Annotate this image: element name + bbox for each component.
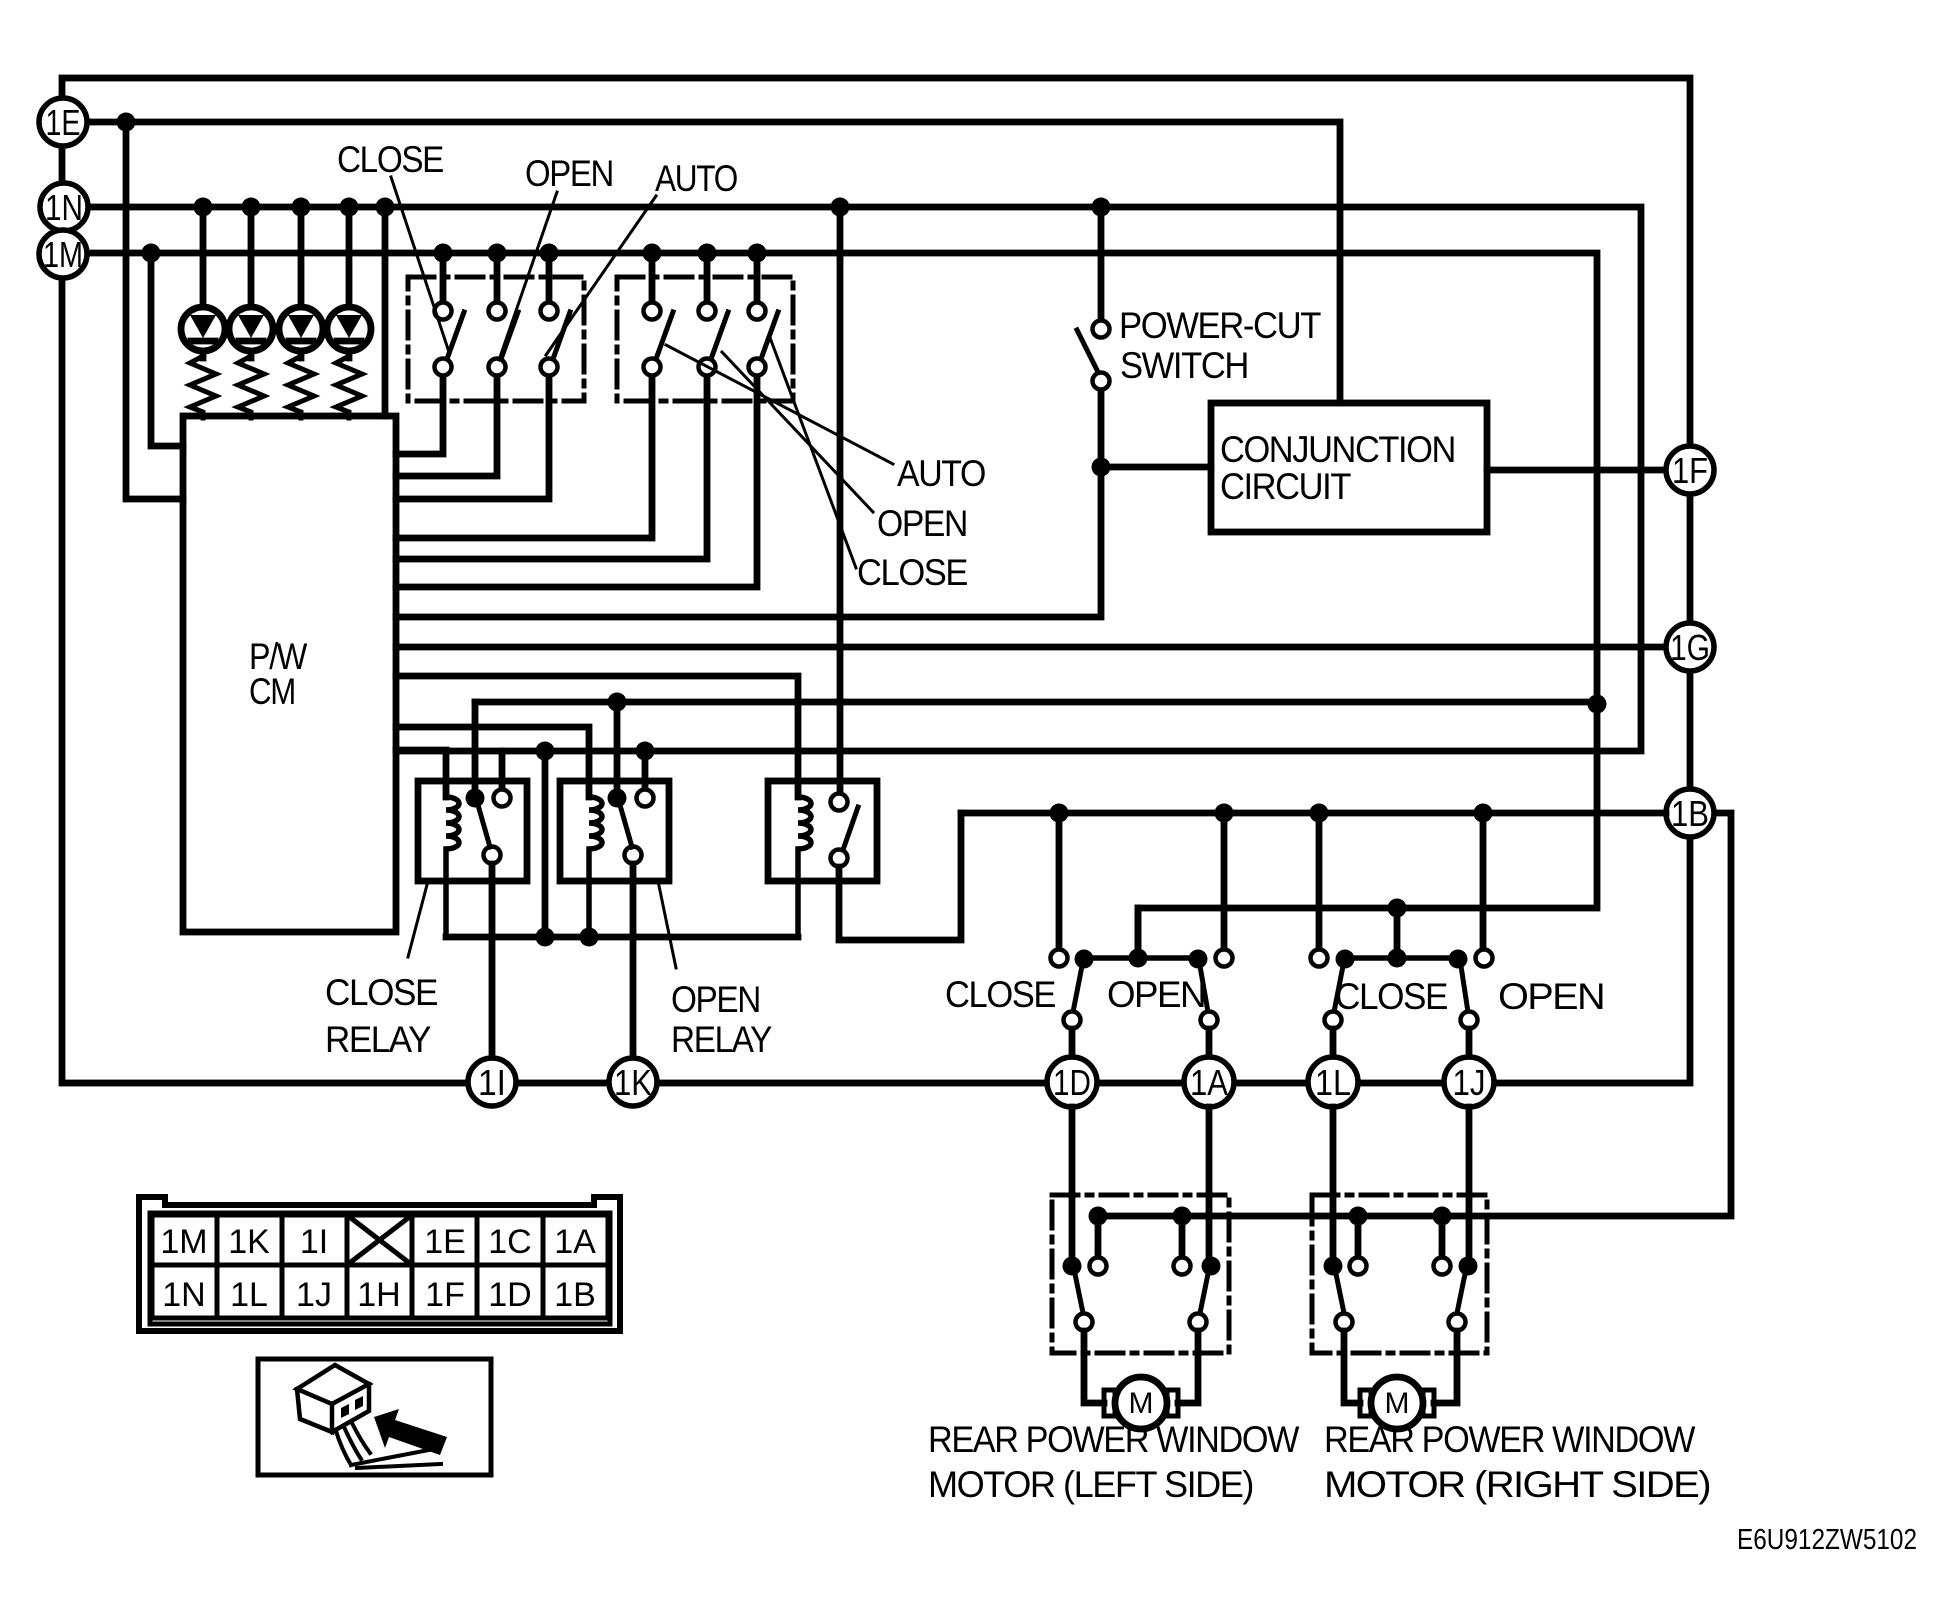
svg-text:1H: 1H: [357, 1276, 400, 1314]
svg-text:1M: 1M: [160, 1223, 207, 1261]
svg-text:CM: CM: [249, 671, 295, 712]
leader line OPEN RELAY label: [658, 881, 676, 968]
connector pin 1G: [1666, 623, 1714, 671]
svg-text:CIRCUIT: CIRCUIT: [1220, 466, 1351, 507]
connector pin 1K: [609, 1058, 657, 1106]
svg-text:1E: 1E: [46, 102, 81, 143]
svg-text:1A: 1A: [554, 1223, 596, 1261]
left rear power window motor M: [1104, 1377, 1178, 1429]
right rear power window motor M: [1360, 1377, 1434, 1429]
switch box 2 dashed enclosure: [617, 277, 793, 401]
svg-text:1I: 1I: [300, 1223, 328, 1261]
svg-text:1I: 1I: [478, 1062, 506, 1103]
power-cut switch: [1077, 207, 1110, 390]
wire 1M bus to rear switch close contacts: [87, 253, 1597, 957]
svg-text:MOTOR (RIGHT SIDE): MOTOR (RIGHT SIDE): [1324, 1464, 1710, 1505]
left motor switch dash-dot box: [1052, 1195, 1229, 1353]
wire relay2 output to 1K: [630, 864, 637, 1058]
svg-text:RELAY: RELAY: [671, 1019, 772, 1060]
node junction dot on 1E wire: [117, 113, 136, 132]
open relay K2 contacts: common dot, NO circle, output circle, blade: [608, 789, 654, 864]
left motor switch blades and lower contacts: [1075, 1274, 1208, 1331]
svg-text:M: M: [1385, 1387, 1410, 1420]
svg-text:POWER-CUT: POWER-CUT: [1119, 305, 1321, 346]
svg-text:1K: 1K: [228, 1223, 270, 1261]
conjunction circuit box: [1211, 403, 1487, 532]
wire stubs common bus to motor switch contacts: [1098, 1216, 1442, 1257]
wire stubs 1B bus to rear switch NO contacts: [1059, 813, 1483, 949]
resistor R4: [336, 356, 362, 418]
left motor switch contacts: [1063, 1257, 1221, 1276]
open relay K2 box: [560, 781, 669, 881]
LED D3: [279, 207, 323, 358]
close relay K1 coil: [446, 797, 459, 937]
wire CM pin joining relay 1 coil on 1N line: [396, 750, 446, 797]
node dot relay2 coil return: [580, 928, 599, 947]
wire link 1N line down to coil return bus: [542, 751, 549, 937]
svg-text:1J: 1J: [296, 1276, 332, 1314]
relay K3 contacts: input from 1N vertical, circles and blade: [831, 207, 859, 867]
connector pin 1B: [1666, 789, 1714, 837]
node dots on 1M bus: [142, 244, 767, 263]
svg-text:M: M: [1129, 1387, 1154, 1420]
wire 1E feed to conjunction circuit: [86, 122, 1340, 403]
wire CM pin to auto switch SW2c: [396, 376, 757, 587]
harness connector icon wires: [336, 1423, 441, 1468]
close relay K1 contacts: common dot, NO circle, output circle, blade: [466, 789, 511, 864]
connector table X cell: [347, 1215, 412, 1265]
svg-text:1A: 1A: [1190, 1062, 1228, 1103]
svg-text:MOTOR (LEFT SIDE): MOTOR (LEFT SIDE): [928, 1464, 1253, 1505]
svg-text:1B: 1B: [1671, 793, 1709, 834]
wire CM pin to close switch SW1a: [396, 376, 443, 454]
svg-text:SWITCH: SWITCH: [1120, 345, 1248, 386]
node dots on 1B bus: [1050, 804, 1493, 823]
relay coil return bus: [446, 934, 798, 941]
wire CM pin to relay 3 coil: [396, 676, 798, 797]
wire 1J to right motor switch: [1466, 1107, 1473, 1258]
svg-text:CLOSE: CLOSE: [945, 974, 1056, 1015]
resistor R1: [190, 356, 216, 418]
connector pinout table grid: [152, 1215, 608, 1318]
svg-text:OPEN: OPEN: [1498, 976, 1604, 1017]
connector pin 1E: [39, 98, 87, 146]
svg-text:CLOSE: CLOSE: [857, 552, 968, 593]
svg-text:OPEN: OPEN: [1107, 974, 1205, 1015]
wire 1L to right motor switch: [1330, 1107, 1337, 1258]
connector pin 1A: [1184, 1057, 1234, 1107]
svg-text:1L: 1L: [1315, 1062, 1351, 1103]
LED D2: [229, 207, 273, 358]
switch SW1c auto: [541, 262, 571, 376]
svg-text:1F: 1F: [425, 1276, 465, 1314]
svg-text:OPEN: OPEN: [525, 153, 613, 194]
wires right switch to motor: [1344, 1331, 1457, 1403]
LED D1 with wire and cathode bar: [181, 207, 225, 358]
leader line CLOSE label to SW1a: [391, 177, 449, 352]
svg-text:1N: 1N: [162, 1276, 205, 1314]
harness connector icon 3d body: [297, 1365, 369, 1432]
harness connector icon arrow: [374, 1409, 447, 1455]
close relay K1 box: [418, 781, 527, 881]
leader line AUTO label to SW1c: [546, 196, 656, 355]
wire CM pin to 1G: [396, 644, 1666, 651]
wire relay1 output to 1I: [489, 864, 496, 1058]
node dot on rear-switch close feed wire: [1388, 899, 1407, 918]
wire 1M drop to P/W CM: [151, 253, 183, 446]
wire 1B return bus to motor switch commons: [1098, 813, 1731, 1216]
wire outer loop: top border, right vertical through 1F 1G 1B, bottom bus through 1I 1K 1D 1A 1L 1J, left border: [62, 78, 1690, 1083]
node dots on motor common bus: [1089, 1207, 1452, 1226]
leader line CLOSE RELAY label: [408, 881, 428, 957]
leader line SW2c to right CLOSE label: [769, 335, 856, 568]
wires left switch to motor: [1084, 1331, 1198, 1403]
switch SW1b open: [489, 262, 519, 376]
wire relay2 common drop: [614, 702, 621, 790]
svg-text:1N: 1N: [45, 187, 83, 228]
node dot power-cut to conjunction tap: [1092, 458, 1111, 477]
wire 1A to left motor switch: [1206, 1107, 1213, 1258]
resistor R2: [238, 356, 264, 418]
svg-text:RELAY: RELAY: [325, 1019, 431, 1060]
node dot coil bus link: [536, 928, 555, 947]
svg-text:CLOSE: CLOSE: [1335, 976, 1448, 1017]
rear right switch contacts row: [1311, 949, 1493, 969]
svg-text:1M: 1M: [43, 234, 83, 275]
relay K3 coil: [798, 797, 811, 937]
right motor switch contacts: [1324, 1257, 1478, 1276]
right motor switch blades and lower contacts: [1336, 1274, 1466, 1331]
rear right switch blades and lower contacts: [1325, 966, 1478, 1057]
wire 1N bus to relays supply: [88, 207, 1641, 751]
connector pin 1M: [39, 230, 87, 278]
wire relay1 common drop: [472, 702, 479, 790]
switch SW2b open: [699, 262, 729, 376]
P/W CM control module box: [183, 416, 396, 932]
svg-text:CLOSE: CLOSE: [325, 972, 438, 1013]
leader line SW2a to right AUTO label: [666, 345, 893, 464]
switch SW2c auto: [749, 262, 779, 376]
node dot 1N line to relay2 NO contact: [636, 742, 655, 761]
open relay K2 coil: [589, 797, 602, 937]
svg-text:REAR POWER WINDOW: REAR POWER WINDOW: [1324, 1419, 1695, 1460]
wire tap to conjunction circuit: [1101, 464, 1211, 471]
switch SW2a close: [644, 262, 674, 376]
switch box 1 dashed enclosure: [408, 277, 584, 401]
resistor R3: [288, 356, 314, 418]
wire relay1 NO contact drop: [499, 751, 506, 789]
wire relay3 output to 1B line: [839, 813, 961, 940]
svg-text:1C: 1C: [488, 1223, 531, 1261]
wire 1N fifth drop into P/W CM: [382, 207, 389, 416]
wire stub close feed left switch: [1135, 908, 1142, 949]
node dots on 1N bus: [194, 198, 1111, 217]
harness connector icon box: [258, 1359, 491, 1475]
svg-text:1L: 1L: [230, 1276, 268, 1314]
rear left switch contacts row: [1051, 949, 1233, 969]
svg-text:1B: 1B: [554, 1276, 596, 1314]
node dot where 1M vertical meets relay common wire: [1588, 695, 1607, 714]
svg-text:1K: 1K: [614, 1062, 652, 1103]
connector pinout table shell: [139, 1197, 620, 1331]
wire 1B bus to rear switches: [961, 810, 1666, 817]
wire 1E drop to P/W CM: [126, 122, 183, 499]
wire relay common supply from 1M vertical: [475, 699, 1597, 706]
connector pin 1N: [40, 183, 88, 231]
svg-text:AUTO: AUTO: [655, 158, 738, 199]
svg-text:OPEN: OPEN: [877, 503, 967, 544]
node dot relay2 common tap: [608, 693, 627, 712]
svg-text:AUTO: AUTO: [897, 453, 986, 494]
wire CM pin to relay 2 coil: [396, 727, 589, 797]
LED D4: [327, 207, 371, 358]
node dot 1N line to coil-return link: [536, 742, 555, 761]
svg-text:1J: 1J: [1453, 1062, 1486, 1103]
relay K3 box: [768, 781, 877, 881]
leader line OPEN label to SW1b: [499, 192, 557, 360]
rear left switch blades and lower contacts: [1064, 966, 1218, 1057]
svg-text:OPEN: OPEN: [671, 979, 760, 1020]
wire stub close feed right switch: [1394, 908, 1401, 949]
wire 1D to left motor switch: [1069, 1107, 1076, 1258]
svg-text:1D: 1D: [1053, 1062, 1091, 1103]
svg-text:1F: 1F: [1672, 450, 1708, 491]
right motor switch dash-dot box: [1312, 1195, 1487, 1353]
wire CM pin to auto switch SW1c: [396, 376, 549, 499]
wire CM pin to open switch SW1b: [396, 376, 497, 476]
connector pin 1D: [1047, 1057, 1097, 1107]
connector pin 1J: [1444, 1057, 1494, 1107]
switch SW1a close: [435, 262, 465, 376]
connector pin 1I: [468, 1058, 516, 1106]
connector pin 1F: [1666, 446, 1714, 494]
svg-text:1E: 1E: [424, 1223, 466, 1261]
svg-text:1G: 1G: [1670, 627, 1710, 668]
wire relay2 NO contact drop: [642, 751, 649, 789]
svg-text:CONJUNCTION: CONJUNCTION: [1220, 429, 1455, 470]
wire CM pin to close switch SW2a: [396, 376, 652, 538]
connector pin 1L: [1308, 1057, 1358, 1107]
wire conjunction circuit to 1F: [1487, 467, 1666, 474]
wire CM pin to power-cut switch: [396, 390, 1101, 617]
connector pinout table inner frame: [150, 1213, 610, 1324]
leader line SW2b to right OPEN label: [722, 352, 873, 512]
svg-text:CLOSE: CLOSE: [337, 139, 444, 180]
svg-text:E6U912ZW5102: E6U912ZW5102: [1737, 1524, 1917, 1556]
svg-text:REAR POWER WINDOW: REAR POWER WINDOW: [928, 1419, 1299, 1460]
wire CM pin to open switch SW2b: [396, 376, 707, 559]
svg-text:1D: 1D: [488, 1276, 531, 1314]
